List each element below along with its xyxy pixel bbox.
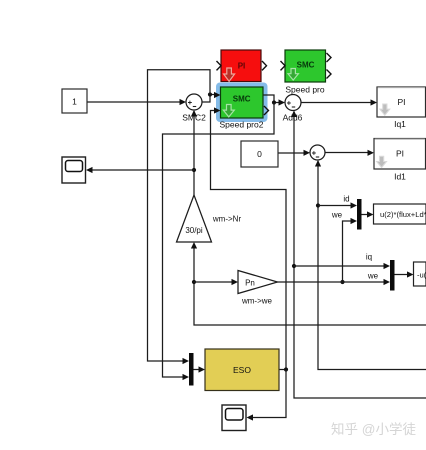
node junction SMC2-out branch [208, 92, 212, 96]
svg-text:30/pi: 30/pi [185, 226, 203, 235]
svg-text:ESO: ESO [233, 365, 251, 375]
node junction ESO output [284, 367, 288, 371]
svg-text:we: we [367, 272, 379, 281]
wire wm feedback from right edge up into 30/pi gain [194, 249, 426, 326]
selection halo around Speed pro2 [216, 83, 268, 123]
svg-text:id: id [343, 195, 349, 204]
sum block SMC2 [182, 94, 206, 123]
gain block 30/pi (wm->Nr) [177, 195, 242, 242]
wire ESO output up to Speed pro2 in2 [211, 111, 287, 370]
wire SMC2 output to Speed pro2 in1 [202, 95, 214, 103]
svg-text:PI: PI [396, 149, 404, 159]
wire iq branch to Mux1 in1 [294, 265, 384, 267]
wire Pn output to Mux2 in2 (we) [278, 281, 384, 283]
constant block 0 [241, 141, 278, 167]
wire id feedback from right edge up into Id sum minus [318, 161, 426, 370]
node junction iq branch [292, 264, 296, 268]
subsystem block Speed pro (green SMC, unconnected) [281, 50, 332, 95]
svg-text:1: 1 [72, 97, 77, 107]
node junction we branch on Pn wire [340, 280, 344, 284]
svg-text:wm->we: wm->we [241, 297, 273, 306]
svg-text:iq: iq [366, 253, 372, 262]
mux block Mux id/we [357, 199, 362, 230]
wire wm branch to Pn gain input [194, 281, 232, 283]
svg-text:SMC: SMC [297, 61, 315, 70]
wire Constant0 to Id sum [278, 152, 304, 154]
svg-text:wm->Nr: wm->Nr [212, 215, 242, 224]
wire 30/pi output up into SMC2 minus [193, 111, 195, 195]
node junction Nr branch to Scope1 [192, 168, 196, 172]
wire id branch to Mux id in1 [318, 205, 351, 207]
wire Nr branch to Scope1 [92, 169, 194, 171]
gain block Pn (wm->we) [238, 271, 278, 306]
wire Mux2 output to Fcn2 [395, 274, 408, 276]
svg-text:SMC2: SMC2 [182, 113, 206, 123]
svg-text:we: we [331, 211, 343, 220]
subsystem block PI (red, unconnected) [217, 50, 267, 82]
scope block Scope1 [62, 157, 86, 183]
function block Fcn1 u(2)*(flux+Ld... [374, 204, 426, 224]
svg-text:0: 0 [257, 149, 262, 159]
svg-text:Add6: Add6 [283, 113, 303, 123]
wire Id sum output to PI Id1 [325, 152, 368, 154]
subsystem block Speed pro2 (green SMC, selected) [220, 87, 269, 130]
wire ESO output down to Scope2 [253, 370, 287, 418]
function block Fcn2 -u( [414, 262, 426, 286]
svg-text:Speed pro2: Speed pro2 [220, 120, 264, 130]
wire iq feedback from right edge up into Add6 minus [294, 112, 426, 399]
svg-text:Pn: Pn [245, 279, 255, 288]
sum block Id loop [310, 145, 325, 160]
wire Speed pro2 out1 to Add6 [263, 95, 279, 103]
constant block 1 [62, 89, 87, 113]
svg-text:PI: PI [238, 62, 246, 71]
wire from Constant1 to SMC2 sum [87, 101, 180, 103]
subsystem block PI Id1 [374, 139, 426, 182]
sum block Add6 [283, 95, 303, 123]
node junction id branch [316, 203, 320, 207]
svg-text:知乎 @小学徒: 知乎 @小学徒 [331, 421, 416, 437]
wire Mux id output to Fcn1 [362, 214, 368, 216]
node junction Speed pro2 out branch [272, 100, 276, 104]
wire SMC2-out branch to ESO mux in1 [148, 70, 211, 361]
svg-text:Speed pro: Speed pro [285, 85, 324, 95]
mux block ESO inputs [189, 353, 194, 386]
svg-text:u(2)*(flux+Ld*u: u(2)*(flux+Ld*u [380, 210, 426, 219]
svg-text:Iq1: Iq1 [394, 119, 406, 129]
subsystem block PI Iq1 [377, 87, 426, 129]
svg-text:PI: PI [397, 97, 405, 107]
mux block Mux iq/we [390, 260, 395, 291]
svg-text:SMC: SMC [233, 95, 251, 104]
scope block Scope2 [222, 405, 246, 431]
subsystem block ESO [205, 349, 279, 391]
wire Add6 output to PI Iq1 [301, 102, 371, 104]
svg-text:-u(: -u( [417, 271, 426, 280]
wire we riser to Mux id in2 [343, 221, 351, 282]
svg-text:Id1: Id1 [394, 172, 406, 182]
wire ESO mux output to ESO [194, 369, 200, 371]
wire ESO output to junction [279, 369, 286, 371]
wire Speed pro2 out branch to ESO mux in2 [163, 103, 275, 378]
node junction wm branch to Pn [192, 280, 196, 284]
